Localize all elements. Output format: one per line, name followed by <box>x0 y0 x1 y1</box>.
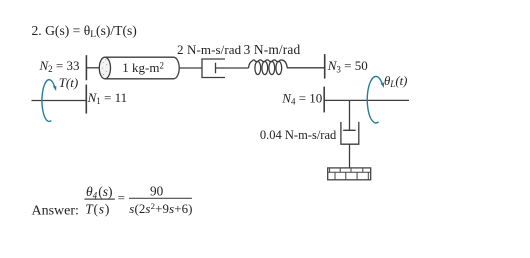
svg-text:3 N-m/rad: 3 N-m/rad <box>244 42 301 57</box>
svg-text:=: = <box>118 190 125 205</box>
wire damper D1 piston rod to spring <box>216 67 249 69</box>
svg-text:N1 = 11: N1 = 11 <box>87 90 128 106</box>
wire gear N2 to inertia <box>86 67 99 69</box>
svg-text:T(t): T(t) <box>59 75 78 90</box>
gear N3 <box>324 54 326 79</box>
wire damper D2 to ground <box>349 144 351 168</box>
svg-text:90: 90 <box>150 183 164 198</box>
damper D2 0.04 N-m-s/rad <box>341 100 359 144</box>
answer fraction 1 bar <box>84 198 115 200</box>
gear N4 <box>323 87 325 113</box>
svg-text:T(s): T(s) <box>85 202 110 217</box>
svg-text:θL(t): θL(t) <box>384 74 407 89</box>
svg-text:θ4 (s): θ4 (s) <box>86 184 113 200</box>
svg-text:N3 = 50: N3 = 50 <box>327 58 368 74</box>
svg-text:0.04 N-m-s/rad: 0.04 N-m-s/rad <box>260 128 337 142</box>
svg-text:Answer:: Answer: <box>32 204 79 219</box>
svg-text:1 kg-m2: 1 kg-m2 <box>122 60 164 75</box>
svg-text:s(2s2+9s+6): s(2s2+9s+6) <box>129 201 192 216</box>
wire inertia to damper D1 <box>179 67 202 69</box>
inertia J 1 kg-m^2 cylinder body <box>105 57 179 79</box>
svg-text:N2 = 33: N2 = 33 <box>39 58 80 74</box>
gear N2 <box>85 55 87 80</box>
svg-text:N4 = 10: N4 = 10 <box>281 91 322 107</box>
answer fraction 2 bar <box>129 197 192 199</box>
spring K 3 N-m/rad <box>249 60 325 68</box>
ground <box>328 168 371 180</box>
inertia left end cap <box>99 57 110 79</box>
svg-text:2 N-m-s/rad: 2 N-m-s/rad <box>177 42 242 57</box>
wire load shaft <box>324 99 409 101</box>
rotation arrow thetaL(t) <box>367 77 382 123</box>
wire input shaft <box>32 100 87 102</box>
svg-text:2. G(s) = θL(s)/T(s): 2. G(s) = θL(s)/T(s) <box>32 23 137 40</box>
torque arrow T(t) <box>42 80 55 122</box>
gear N1 <box>85 85 87 114</box>
damper D1 2 N-m-s/rad <box>202 59 225 78</box>
